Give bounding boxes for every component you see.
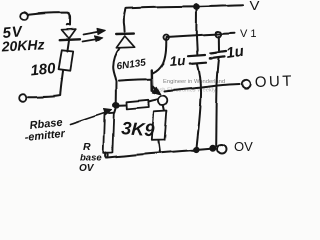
node V1 rail cap2 bbox=[216, 31, 222, 37]
resistor 3K9 emitter (vertical) bbox=[163, 106, 164, 111]
svg-text:1u: 1u bbox=[169, 53, 187, 69]
base lead bbox=[119, 79, 151, 80]
resistor R base-emitter (horizontal) bbox=[119, 104, 126, 106]
OUT wire from emitter bbox=[165, 84, 240, 92]
wire C2 down through OUT to 0V bbox=[216, 59, 219, 147]
wire top rail to photodiode bbox=[124, 9, 126, 32]
wire base node down (through R base 0V) bbox=[115, 81, 117, 103]
wire input to LED bbox=[28, 13, 70, 25]
node V1 rail left bbox=[164, 35, 169, 40]
wire C1 to 0V rail bbox=[196, 64, 201, 149]
wire LED to resistor bbox=[67, 41, 69, 52]
svg-text:V 1: V 1 bbox=[240, 28, 257, 40]
0V terminal bbox=[217, 145, 226, 154]
wire top rail junction down to V1 rail bbox=[195, 8, 197, 36]
resistor R base 0V (vertical tall) bbox=[103, 113, 114, 153]
wire V1 node to cap C2 bbox=[218, 37, 220, 51]
node top rail bbox=[194, 4, 200, 10]
node base junction bbox=[113, 102, 119, 108]
resistor 180 bbox=[59, 50, 74, 70]
svg-text:OV: OV bbox=[234, 139, 253, 154]
capacitor C2 bbox=[210, 51, 226, 53]
OUT terminal bbox=[242, 80, 250, 88]
wire resistor to 0V terminal bbox=[29, 71, 64, 98]
terminal input top-left bbox=[20, 12, 28, 20]
transistor Q1 base bar bbox=[151, 70, 154, 90]
top rail V bbox=[126, 5, 243, 8]
svg-text:1u: 1u bbox=[225, 43, 245, 62]
annotation arrow to base node bbox=[70, 113, 106, 125]
svg-text:20KHz: 20KHz bbox=[0, 36, 45, 54]
svg-text:OUT: OUT bbox=[255, 73, 295, 91]
wire V1 rail to cap C1 bbox=[196, 36, 199, 54]
svg-text:3K9: 3K9 bbox=[121, 118, 155, 140]
svg-text:base: base bbox=[80, 153, 102, 164]
emitter node circle bbox=[158, 96, 167, 105]
node 0V cap1 bbox=[194, 147, 200, 153]
wire collector to V1 rail bbox=[163, 39, 166, 64]
LED D1 bbox=[62, 29, 76, 38]
svg-text:V: V bbox=[250, 0, 261, 13]
terminal 0V left bbox=[19, 94, 27, 102]
light arrow 1 bbox=[84, 32, 101, 35]
0V rail bbox=[105, 149, 212, 158]
wire photodiode anode down bbox=[113, 48, 119, 80]
transistor emitter with arrow bbox=[153, 86, 158, 91]
svg-text:R: R bbox=[83, 141, 91, 153]
transistor collector bbox=[153, 64, 163, 74]
node 0V right bbox=[210, 145, 216, 151]
svg-text:OV: OV bbox=[79, 163, 95, 174]
capacitor C1 bbox=[188, 55, 205, 56]
svg-text:180: 180 bbox=[30, 60, 57, 80]
light arrow 2 bbox=[83, 39, 98, 42]
photodiode cathode bar bbox=[116, 32, 134, 35]
svg-text:Engineer in Wonderland: Engineer in Wonderland bbox=[163, 79, 225, 85]
photodiode 6N135 bbox=[116, 36, 134, 48]
V1 rail bbox=[167, 33, 235, 37]
